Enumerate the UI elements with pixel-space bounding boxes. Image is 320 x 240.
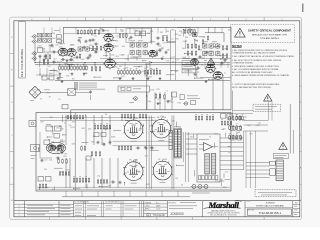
svg-text:560R: 560R [72, 144, 77, 146]
pi tail parts [58, 158, 60, 164]
svg-text:560R: 560R [163, 130, 168, 132]
coupling pair [57, 35, 62, 38]
svg-text:R31: R31 [59, 43, 62, 45]
svg-text:120p: 120p [111, 55, 115, 57]
svg-text:R23: R23 [193, 61, 196, 63]
svg-text:R7: R7 [40, 98, 42, 100]
el34 lower pair [124, 162, 143, 181]
svg-text:R31: R31 [150, 31, 153, 33]
fx level parts [155, 93, 157, 99]
svg-text:R31: R31 [157, 89, 160, 91]
interstage box [62, 105, 68, 109]
svg-text:ZD1: ZD1 [49, 160, 52, 162]
choke box [169, 131, 173, 150]
svg-text:C21: C21 [116, 35, 119, 37]
channel pots cluster [130, 43, 134, 47]
speaker jacks [192, 185, 196, 189]
svg-text:CHKD: CHKD [145, 206, 151, 208]
svg-text:C14: C14 [172, 56, 175, 58]
svg-text:2K2: 2K2 [243, 119, 246, 121]
svg-text:R31: R31 [66, 75, 69, 77]
svg-text:R12: R12 [139, 56, 142, 58]
svg-text:R7: R7 [49, 96, 51, 98]
resistor groups above pcb [195, 115, 197, 120]
svg-text:OTHERWISE STATED.: OTHERWISE STATED. [232, 62, 254, 65]
svg-text:ZD1: ZD1 [72, 122, 75, 124]
revision table [14, 204, 74, 214]
svg-text:1K5: 1K5 [178, 35, 181, 37]
file name label rotated [19, 22, 26, 79]
svg-text:TITLE: TITLE [246, 201, 250, 203]
vertical wire bus left [66, 115, 110, 145]
svg-text:7712-62-00: 7712-62-00 [153, 214, 166, 217]
svg-text:C14: C14 [258, 123, 261, 125]
svg-text:1K5: 1K5 [47, 66, 50, 68]
svg-text:6K8: 6K8 [122, 46, 125, 48]
svg-text:SUPER LEAD 100 STANDARD: SUPER LEAD 100 STANDARD [256, 205, 285, 208]
cathode resistor row V1 [59, 65, 61, 71]
svg-text:1K5: 1K5 [52, 33, 55, 35]
svg-text:6K8: 6K8 [82, 128, 85, 130]
screen resistors between tubes [118, 145, 120, 150]
svg-text:DRG No.: DRG No. [248, 209, 255, 211]
svg-text:D4: D4 [106, 129, 108, 131]
svg-text:1n: 1n [188, 57, 190, 59]
long vertical feed wires [151, 27, 153, 44]
aux box with note [180, 95, 184, 100]
svg-text:0.022: 0.022 [183, 41, 187, 43]
svg-text:5. ALL VOLTAGES MEASURED WITH: 5. ALL VOLTAGES MEASURED WITH NO SIGNAL, [232, 68, 280, 71]
svg-text:C14: C14 [80, 50, 83, 52]
svg-text:R44: R44 [152, 69, 155, 71]
vertical wire bundle mid [147, 116, 152, 190]
svg-text:4K7: 4K7 [119, 66, 122, 68]
sheet inner border [14, 21, 300, 217]
output transformer [174, 130, 177, 158]
svg-text:R23: R23 [63, 156, 66, 158]
v1-v2 extra parts [83, 46, 86, 50]
impedance selector [31, 145, 40, 152]
svg-text:6K8: 6K8 [171, 29, 174, 31]
svg-text:R23: R23 [66, 169, 69, 171]
svg-text:C9: C9 [179, 129, 181, 131]
svg-text:1. ALL RESISTORS ARE 1/4W 5%: 1. ALL RESISTORS ARE 1/4W 5% CARBON FILM… [232, 49, 288, 52]
svg-text:OTHERWISE STATED. ALL VALUES I: OTHERWISE STATED. ALL VALUES IN OHMS. [232, 52, 276, 55]
svg-text:FILE: 7C12-60-0B.DWG: FILE: 7C12-60-0B.DWG [20, 49, 24, 77]
svg-text:470p: 470p [144, 66, 148, 68]
fx relay box [118, 86, 150, 92]
input network boxes [38, 33, 42, 37]
svg-text:4K7: 4K7 [88, 57, 91, 59]
v1 cathode caps [61, 58, 65, 61]
pcb block right [197, 134, 220, 182]
svg-text:1n: 1n [39, 73, 41, 75]
svg-text:3: 3 [19, 209, 20, 211]
page edge mark top right [302, 4, 304, 13]
pi tail resistors [59, 171, 61, 176]
svg-text:100n: 100n [81, 59, 85, 61]
svg-text:R7: R7 [41, 77, 43, 79]
svg-text:SAFETY CRITICAL COMPONENT: SAFETY CRITICAL COMPONENT [248, 29, 291, 33]
svg-text:4. INDICATES CHASSIS GROUND C: 4. INDICATES CHASSIS GROUND CONNECTION. [232, 65, 280, 68]
top right feed wires [178, 28, 224, 43]
svg-text:R44: R44 [52, 38, 55, 40]
svg-text:EL34: EL34 [163, 159, 167, 161]
svg-text:2: 2 [19, 212, 20, 214]
svg-text:22p: 22p [102, 143, 105, 145]
svg-text:D4: D4 [218, 76, 220, 78]
warning triangle notes [264, 94, 272, 101]
svg-text:C9: C9 [172, 61, 174, 63]
standby parts [38, 177, 44, 182]
svg-text:100n: 100n [88, 128, 92, 130]
valve V3a [206, 65, 215, 73]
svg-text:1K5: 1K5 [72, 79, 75, 81]
svg-text:C14: C14 [202, 37, 205, 39]
svg-text:R31: R31 [47, 93, 50, 95]
valve V2d [149, 50, 157, 57]
op-amp [204, 143, 213, 151]
ot lower verticals [186, 162, 189, 182]
bottom connector row [198, 176, 201, 180]
svg-text:1K5: 1K5 [56, 72, 59, 74]
svg-text:1n: 1n [213, 43, 215, 45]
legend text block [75, 82, 78, 83]
svg-text:R31: R31 [186, 63, 189, 65]
v1 plate pots [78, 47, 82, 51]
svg-text:SETS. SEE BIAS SETTING PROCEDU: SETS. SEE BIAS SETTING PROCEDURE. [232, 86, 272, 89]
relay RL1 [38, 48, 43, 53]
svg-text:R12: R12 [49, 45, 52, 47]
svg-text:R7: R7 [138, 67, 140, 69]
right column parts [222, 45, 224, 51]
svg-text:R12: R12 [150, 147, 153, 149]
left hv parts [54, 134, 60, 139]
svg-text:3. ALL ELECTROLYTICS RATED 45: 3. ALL ELECTROLYTICS RATED 450V MIN. UNL… [232, 59, 282, 62]
screen grid resistor row top [67, 115, 69, 120]
svg-text:1: 1 [19, 215, 20, 217]
svg-text:C2: C2 [197, 72, 199, 74]
mid column parts [119, 33, 121, 38]
svg-text:1n: 1n [64, 122, 66, 124]
svg-text:C2: C2 [171, 39, 173, 41]
svg-text:C21: C21 [176, 60, 179, 62]
right drop wires [213, 78, 223, 110]
channel2 extra resistors [187, 43, 189, 49]
svg-text:22p: 22p [97, 175, 100, 177]
svg-text:C21: C21 [163, 43, 166, 45]
svg-text:R31: R31 [176, 39, 179, 41]
left column mid parts [43, 59, 45, 65]
drawn/checked block [144, 204, 168, 214]
svg-text:R23: R23 [75, 57, 78, 59]
input-V1 link parts [45, 54, 47, 60]
svg-text:22p: 22p [150, 52, 153, 54]
svg-text:A3: A3 [295, 202, 297, 205]
svg-text:REPLACE ONLY WITH SAME TYPE: REPLACE ONLY WITH SAME TYPE [252, 34, 288, 37]
svg-text:6K8: 6K8 [37, 40, 40, 42]
svg-text:D4: D4 [181, 185, 183, 187]
svg-text:R23: R23 [84, 73, 87, 75]
left edge jack module [29, 121, 36, 127]
svg-text:1n: 1n [60, 61, 62, 63]
ch2 extra parts [198, 45, 200, 51]
units table [74, 203, 144, 205]
scattered preamp wires [44, 27, 222, 33]
svg-text:4: 4 [19, 206, 20, 208]
svg-text:8K2: 8K2 [91, 141, 94, 143]
svg-text:120p: 120p [114, 66, 118, 68]
mains inlet connector [276, 160, 283, 181]
svg-text:0.022: 0.022 [150, 90, 154, 92]
bias boxes left [46, 126, 53, 131]
ot secondary wires [186, 134, 197, 154]
svg-text:C9: C9 [209, 136, 211, 138]
svg-text:0.022: 0.022 [146, 184, 150, 186]
svg-text:R12: R12 [61, 52, 64, 54]
svg-text:R.C.: R.C. [156, 202, 160, 204]
input jack group [33, 35, 36, 38]
svg-text:120p: 120p [147, 101, 151, 103]
svg-text:ALL CONTROLS AT MINIMUM. DVM 1: ALL CONTROLS AT MINIMUM. DVM 10M/V. [232, 71, 273, 74]
svg-text:DRAWN: DRAWN [145, 201, 152, 204]
channel 2 pots [203, 44, 207, 48]
svg-text:120p: 120p [59, 47, 63, 49]
svg-text:120p: 120p [247, 125, 251, 127]
svg-text:C9: C9 [46, 35, 48, 37]
svg-text:C9: C9 [94, 36, 96, 38]
led indicator labels [182, 61, 196, 65]
svg-text:C2: C2 [166, 90, 168, 92]
warning triangle mid [207, 58, 214, 64]
bridge rectifier [29, 86, 41, 98]
svg-text:C9: C9 [52, 47, 54, 49]
svg-text:1n: 1n [224, 72, 226, 74]
svg-text:7. OUTPUT VALVES ARE SUPPLIED: 7. OUTPUT VALVES ARE SUPPLIED IN MATCHED [232, 83, 280, 86]
svg-text:R12: R12 [147, 33, 150, 35]
svg-text:D4: D4 [105, 114, 107, 116]
svg-text:1K5: 1K5 [44, 169, 47, 171]
valve V1a [58, 48, 67, 56]
svg-text:R44: R44 [178, 103, 181, 105]
svg-text:Marshall: Marshall [207, 200, 239, 210]
svg-text:C14: C14 [225, 171, 228, 173]
mains wires [244, 121, 269, 132]
svg-text:2. ALL CAPACITOR VALUES IN uF: 2. ALL CAPACITOR VALUES IN uF UNLESS OTH… [232, 55, 295, 58]
svg-text:R1: R1 [79, 38, 81, 40]
svg-text:ZD1: ZD1 [57, 62, 60, 64]
svg-text:C21: C21 [158, 46, 161, 48]
preamp extra buses [100, 57, 231, 59]
svg-text:C21: C21 [183, 30, 186, 32]
svg-text:R1: R1 [120, 88, 122, 90]
svg-text:7712-60-00 ISS 1: 7712-60-00 ISS 1 [258, 211, 281, 215]
svg-text:8K2: 8K2 [116, 56, 119, 58]
svg-text:ZD1: ZD1 [145, 155, 148, 157]
svg-text:R7: R7 [233, 120, 235, 122]
svg-text:PROJECT: PROJECT [169, 202, 177, 204]
divider column parts [81, 145, 83, 151]
wires above strip [62, 196, 190, 198]
bias feed caps [97, 141, 100, 145]
svg-text:R23: R23 [249, 133, 252, 135]
bias network grid [229, 115, 231, 120]
svg-text:4K7: 4K7 [108, 186, 111, 188]
lower input jacks [33, 52, 36, 55]
valve V3c [191, 59, 199, 66]
svg-text:C2: C2 [43, 64, 45, 66]
title strip frame [14, 200, 300, 202]
preamp enclosure box [64, 27, 232, 103]
svg-text:R31: R31 [155, 54, 158, 56]
phase splitter valve [46, 142, 65, 153]
power amp enclosure [36, 113, 231, 192]
svg-text:R12: R12 [215, 134, 218, 136]
ot right wires [183, 132, 188, 162]
tone stack boxes [135, 31, 140, 36]
svg-text:560R: 560R [111, 136, 116, 138]
valve V2b [104, 44, 113, 52]
svg-text:JCM2000: JCM2000 [265, 203, 275, 205]
svg-text:C2: C2 [157, 99, 159, 101]
valve V1b [67, 48, 76, 56]
dashed note box mid [253, 104, 281, 111]
svg-text:1K5: 1K5 [166, 31, 169, 33]
svg-text:560R: 560R [236, 132, 241, 134]
dashed mains partial box [255, 190, 296, 197]
svg-text:8K2: 8K2 [160, 32, 163, 34]
svg-text:100n: 100n [49, 73, 53, 75]
valve V2a [104, 34, 113, 42]
svg-text:R31: R31 [91, 34, 94, 36]
svg-text:6. VALVE BASES VIEWED FROM UN: 6. VALVE BASES VIEWED FROM UNDERSIDE OF … [232, 74, 290, 77]
grid resistor cluster [94, 124, 96, 129]
svg-text:0.022: 0.022 [256, 125, 260, 127]
hanging resistors top V1 [77, 29, 79, 34]
connector bars [205, 154, 210, 175]
svg-text:0.022: 0.022 [70, 127, 74, 129]
inter stage parts right [156, 37, 160, 40]
front panel sub-box [126, 29, 151, 43]
preamp bus wires [35, 63, 230, 65]
svg-text:4K7: 4K7 [54, 59, 57, 61]
pcb right wire bundle [220, 138, 244, 170]
svg-text:8K2: 8K2 [51, 126, 54, 128]
svg-text:10-97: 10-97 [156, 209, 160, 211]
safety critical component box [231, 25, 295, 43]
svg-text:0.022: 0.022 [131, 133, 135, 135]
sheet outer trim border [10, 17, 302, 220]
svg-text:R44: R44 [185, 37, 188, 39]
border grid ticks [10, 17, 302, 220]
svg-text:100n: 100n [182, 48, 186, 50]
el34 upper pair [124, 120, 143, 139]
svg-text:NOTES: NOTES [232, 44, 242, 48]
valve V2c [105, 59, 116, 68]
svg-text:120p: 120p [134, 30, 138, 32]
mains label box [273, 154, 288, 159]
valve V3b [213, 72, 222, 80]
warning triangle mains [279, 142, 287, 149]
svg-text:APPD: APPD [145, 208, 150, 211]
svg-text:R23: R23 [142, 71, 145, 73]
svg-text:560R: 560R [145, 63, 150, 65]
svg-text:JCM2000: JCM2000 [170, 212, 184, 216]
svg-text:R31: R31 [56, 152, 59, 154]
svg-text:EL34: EL34 [134, 118, 138, 120]
svg-text:470p: 470p [60, 128, 64, 130]
mid resistor rows [118, 69, 120, 75]
svg-text:C9: C9 [58, 99, 60, 101]
svg-text:0.68: 0.68 [202, 58, 205, 60]
svg-text:C21: C21 [44, 160, 47, 162]
fuse boxes [270, 161, 276, 165]
svg-text:TYPE AND RATING.: TYPE AND RATING. [260, 37, 280, 40]
bottom mid parts [97, 179, 99, 184]
fx jack [134, 97, 138, 101]
